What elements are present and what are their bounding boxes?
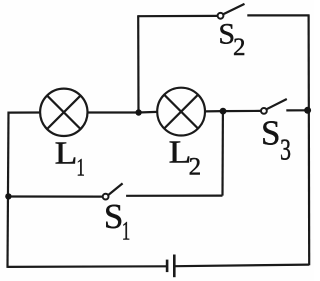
label L2 [169,134,202,180]
wire top rail right of S2 [247,14,309,16]
svg-text:S: S [261,113,280,152]
wire left rail to L1 [8,111,41,113]
wire node A up to top rail [137,15,140,112]
wire bottom rail left of battery [8,265,167,268]
label S3 [261,113,291,166]
svg-text:S: S [104,197,123,236]
label S2 [218,18,245,61]
wire node B to S3 [223,110,261,112]
svg-text:L: L [55,135,78,170]
wire L2 to node B [205,110,223,113]
switch S2 [218,4,245,19]
svg-text:1: 1 [122,217,131,246]
wire left rail vertical [8,112,9,268]
wire node B down to S1 row [221,111,224,196]
wire right rail vertical [308,15,311,265]
svg-text:3: 3 [280,131,291,166]
wire node A to L2 [139,111,158,114]
switch S1 [103,183,123,199]
node D junction dot (right rail / S3 wire) [304,107,311,114]
wire S1 row left segment [8,195,102,197]
svg-text:2: 2 [233,34,246,61]
switch S3 [261,99,287,114]
lamp L2 [157,88,205,136]
lamp L1 [40,89,87,136]
svg-text:2: 2 [189,154,202,181]
node B junction dot [220,108,227,115]
node C junction dot (left rail / S1 row) [5,193,11,199]
label S1 [104,197,130,246]
wire bottom rail right of battery [176,265,310,267]
wire S1 row right segment [126,195,222,197]
wire L1 to node A [88,111,139,113]
wire S3 to right rail [286,109,308,111]
label L1 [55,135,85,181]
node A junction dot [135,109,141,115]
svg-text:1: 1 [76,154,85,181]
battery [167,255,174,278]
wire top rail left of S2 [138,15,217,18]
